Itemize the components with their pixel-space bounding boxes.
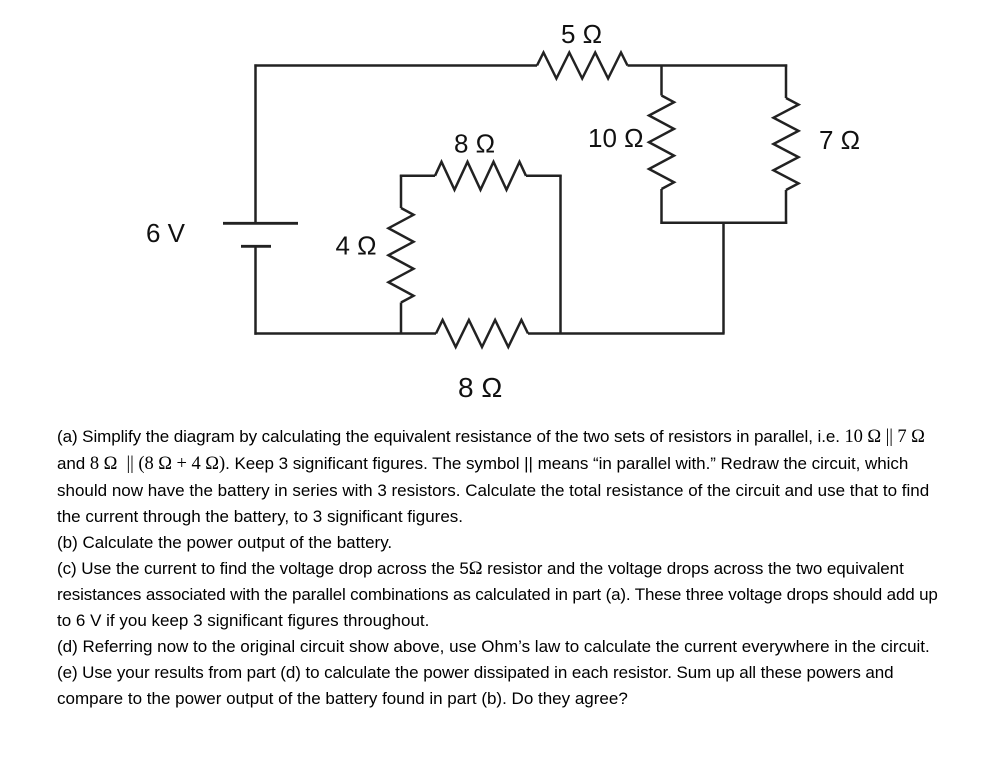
resistor R1 5-ohm (top, horizontal) bbox=[537, 53, 628, 79]
svg-text:8 Ω: 8 Ω bbox=[458, 372, 502, 403]
resistor R4 4-ohm (inner square left, vertical) bbox=[389, 208, 414, 303]
wire: inner square left vertical lower lead bbox=[400, 303, 403, 334]
battery B1 6V positive plate (long) bbox=[223, 222, 298, 225]
resistor R2 8-ohm (bottom, horizontal) bbox=[436, 320, 528, 347]
wire: bottom horizontal from battery to 8-ohm bottom resistor bbox=[254, 332, 436, 335]
circuit schematic drawing bbox=[0, 0, 1002, 420]
wire: bottom horizontal from 8-ohm resistor to right stub bbox=[528, 332, 725, 335]
wire: inner square left vertical upper lead bbox=[400, 175, 403, 208]
svg-text:6 V: 6 V bbox=[146, 218, 186, 248]
wire: from battery - plate down to bottom wire bbox=[254, 248, 257, 335]
wire: stub from parallel combo bottom down to bottom wire bbox=[722, 223, 725, 334]
svg-text:5 Ω: 5 Ω bbox=[561, 19, 602, 49]
wire: 10-ohm branch lower lead bbox=[660, 189, 663, 224]
resistor R3 8-ohm (inner square top, horizontal) bbox=[435, 162, 526, 190]
battery B1 6V negative plate (short) bbox=[241, 245, 271, 248]
wire: inner square right vertical bbox=[559, 175, 562, 334]
label battery 6 V bbox=[146, 19, 860, 403]
problem statement text bbox=[57, 424, 938, 712]
wire: top-left horizontal from battery top to 5-ohm resistor bbox=[254, 64, 537, 67]
wire: inner square top-left horizontal lead bbox=[400, 175, 435, 178]
resistor R5 10-ohm (vertical) bbox=[649, 96, 674, 190]
wire: 10-ohm branch upper lead from top wire bbox=[660, 66, 663, 96]
svg-text:4 Ω: 4 Ω bbox=[336, 231, 377, 261]
svg-text:10 Ω: 10 Ω bbox=[588, 123, 644, 153]
wire: 7-ohm branch lower lead bbox=[785, 190, 788, 224]
wire: left vertical from top wire to battery + plate bbox=[254, 64, 257, 222]
resistor R6 7-ohm (vertical) bbox=[774, 98, 799, 190]
svg-text:7 Ω: 7 Ω bbox=[819, 125, 860, 155]
wire: parallel combo bottom horizontal bbox=[660, 222, 787, 225]
wire: top horizontal from 5-ohm to 7-ohm branch bbox=[628, 64, 788, 67]
wire: 7-ohm branch upper lead from top wire bbox=[785, 64, 788, 98]
svg-text:8 Ω: 8 Ω bbox=[454, 129, 495, 159]
wire: inner square top-right horizontal lead bbox=[526, 175, 562, 178]
